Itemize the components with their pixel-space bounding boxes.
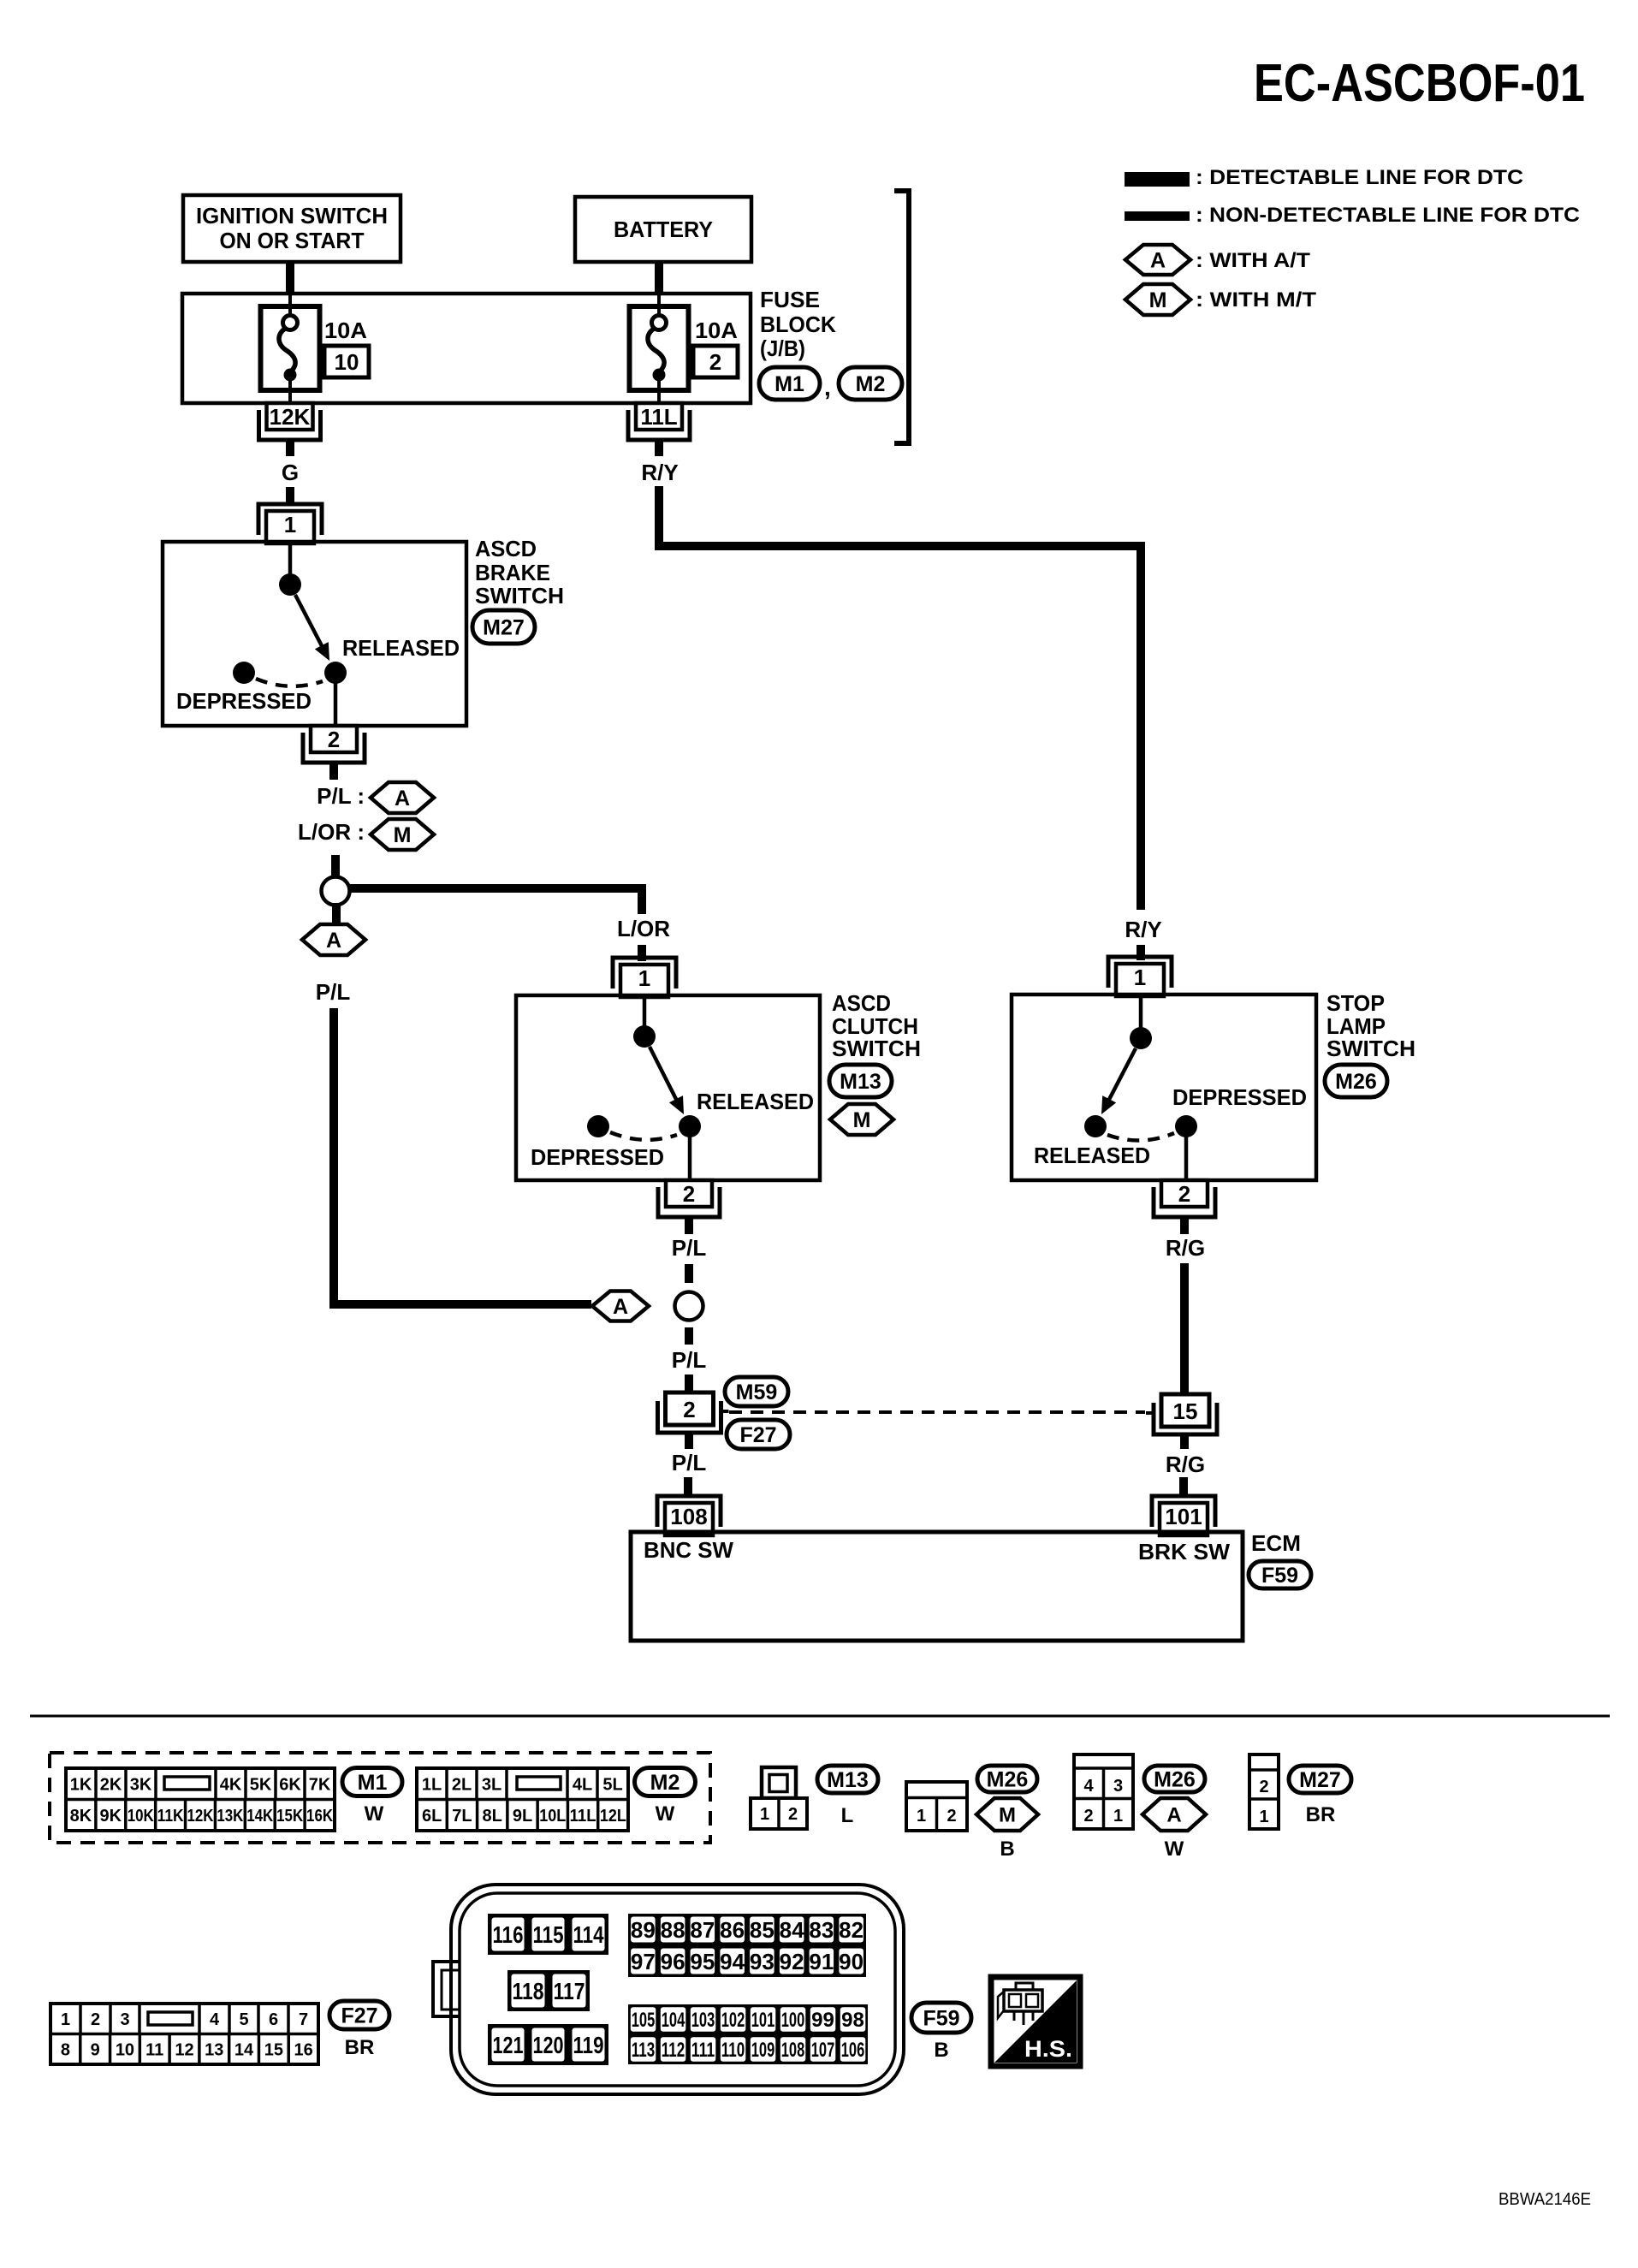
inline connector pin 15 (1161, 1394, 1209, 1427)
hexagon A (bottom M26) (1142, 1798, 1206, 1831)
svg-text:DEPRESSED: DEPRESSED (1172, 1084, 1307, 1110)
svg-text:15: 15 (1173, 1398, 1198, 1424)
svg-text:F59: F59 (1261, 1564, 1298, 1588)
svg-text:L/OR: L/OR (617, 916, 670, 941)
svg-text:102: 102 (721, 2009, 745, 2032)
svg-text:3: 3 (120, 2010, 129, 2029)
hexagon M (clutch switch with M/T) (830, 1104, 893, 1135)
svg-text:R/Y: R/Y (1125, 917, 1161, 942)
svg-text:2: 2 (709, 349, 721, 375)
connector grid M2 (fuse block 1L-12L) (417, 1768, 628, 1831)
svg-text:2: 2 (91, 2010, 100, 2029)
svg-text:3L: 3L (482, 1775, 501, 1794)
wire stub below stop pin 2 (1180, 1217, 1189, 1234)
svg-text:116: 116 (493, 1921, 524, 1948)
svg-text:85: 85 (750, 1917, 774, 1943)
stop lamp switch released contact (1084, 1115, 1107, 1137)
wire ignition switch to fuse block (286, 262, 294, 294)
wire stub below junction node (332, 903, 341, 925)
svg-text:2: 2 (788, 1805, 798, 1824)
second junction node (675, 1292, 703, 1321)
hexagon A (P/L wire) (371, 782, 434, 813)
brake switch released contact (324, 662, 347, 684)
ECM pins 89-82 97-90 (628, 1914, 866, 1977)
svg-text:88: 88 (661, 1917, 685, 1943)
svg-text:2: 2 (1178, 1181, 1190, 1207)
connector oval M59 (725, 1377, 788, 1406)
wire depressed contact to stop pin 2 (1184, 1136, 1189, 1180)
wire stub into ECM pin 101 (1179, 1477, 1188, 1496)
connector oval M13 (clutch switch) (829, 1065, 892, 1097)
svg-text:M2: M2 (856, 372, 886, 396)
connector view M26 four-pin (stop lamp switch A/T) (1074, 1754, 1133, 1829)
svg-text:82: 82 (839, 1917, 864, 1943)
battery box (575, 197, 751, 262)
svg-text:1L: 1L (422, 1775, 442, 1794)
svg-text:RELEASED: RELEASED (1034, 1143, 1150, 1168)
wire R/Y from fuse block to stop lamp switch (659, 486, 1141, 910)
connector view M26 two-pin (stop lamp switch M/T) (906, 1782, 967, 1831)
svg-text:6: 6 (269, 2010, 278, 2029)
svg-text:M59: M59 (736, 1380, 778, 1404)
svg-text:: DETECTABLE LINE FOR DTC: : DETECTABLE LINE FOR DTC (1196, 166, 1523, 189)
svg-text:1: 1 (917, 1807, 926, 1826)
wire stub into clutch switch pin 1 (638, 945, 646, 961)
svg-text:A: A (326, 929, 341, 953)
svg-text:: WITH M/T: : WITH M/T (1196, 288, 1316, 312)
connector pin 2 of ASCD clutch switch (666, 1180, 712, 1207)
connector oval F27 (727, 1420, 790, 1449)
fuse block bracket (894, 191, 909, 443)
svg-text:W: W (1165, 1838, 1184, 1861)
svg-text:15: 15 (264, 2040, 283, 2059)
svg-text:113: 113 (632, 2039, 656, 2062)
svg-text:121: 121 (493, 2032, 524, 2058)
ECM connector index notch (433, 1962, 460, 2016)
clutch switch common contact (633, 1025, 656, 1048)
stop lamp switch common contact (1130, 1027, 1152, 1049)
wire stub above junction node (331, 855, 340, 876)
svg-text:100: 100 (781, 2009, 805, 2032)
stop lamp switch box (1012, 994, 1316, 1180)
svg-text:15K: 15K (276, 1807, 303, 1826)
connector view M27 (brake switch) (1249, 1754, 1279, 1829)
wire G into ASCD brake switch pin 1 (286, 487, 294, 506)
svg-text:114: 114 (573, 1921, 604, 1948)
svg-text:101: 101 (751, 2009, 775, 2032)
svg-text:BBWA2146E: BBWA2146E (1499, 2190, 1591, 2209)
svg-text:M: M (999, 1804, 1016, 1827)
svg-text:L/OR :: L/OR : (298, 819, 365, 845)
connector pin 2 of stop lamp switch (1161, 1180, 1208, 1207)
svg-text:: NON-DETECTABLE LINE FOR DTC: : NON-DETECTABLE LINE FOR DTC (1196, 204, 1580, 227)
svg-text:89: 89 (631, 1917, 656, 1943)
svg-text:RELEASED: RELEASED (342, 635, 460, 661)
svg-text:108: 108 (670, 1504, 707, 1529)
svg-text:M26: M26 (1154, 1768, 1196, 1792)
svg-text:5: 5 (239, 2010, 248, 2029)
svg-text:F59: F59 (923, 2007, 959, 2031)
svg-text:9K: 9K (100, 1807, 122, 1826)
svg-text:ASCD: ASCD (475, 536, 537, 561)
svg-text:105: 105 (632, 2009, 656, 2032)
stop lamp switch depressed contact (1175, 1115, 1197, 1137)
connector pin 1 of stop lamp switch (1108, 957, 1172, 988)
svg-text:BLOCK: BLOCK (760, 312, 836, 337)
svg-text:119: 119 (573, 2032, 604, 2058)
svg-text:IGNITION SWITCH: IGNITION SWITCH (196, 203, 388, 229)
svg-text:1: 1 (61, 2010, 70, 2029)
svg-text:94: 94 (720, 1949, 745, 1974)
svg-text:P/L: P/L (316, 979, 351, 1005)
connector oval M26 (bottom, M/T) (977, 1766, 1037, 1792)
svg-text:A: A (1150, 249, 1166, 273)
svg-text:(J/B): (J/B) (760, 335, 805, 361)
wire stub below M59/F27 junction (685, 1433, 693, 1449)
svg-text:107: 107 (811, 2039, 835, 2062)
svg-text:P/L :: P/L : (317, 783, 365, 809)
svg-text:5K: 5K (250, 1775, 272, 1794)
svg-text:W: W (365, 1802, 384, 1826)
svg-text:M27: M27 (483, 616, 525, 640)
svg-text:4: 4 (210, 2010, 220, 2029)
svg-text:BRAKE: BRAKE (475, 560, 550, 585)
legend hexagon M (1125, 284, 1190, 315)
svg-text:R/G: R/G (1166, 1452, 1205, 1477)
connector pin 1 of ASCD brake switch (258, 504, 322, 535)
ECM pins 121 120 119 (488, 2024, 608, 2065)
svg-text:6K: 6K (279, 1775, 301, 1794)
wire stub below junction 15 (1180, 1433, 1189, 1449)
svg-text:M26: M26 (987, 1768, 1029, 1792)
svg-text:M: M (1149, 288, 1167, 312)
svg-text:1K: 1K (70, 1775, 92, 1794)
svg-text:2: 2 (683, 1181, 695, 1207)
wire released contact to clutch pin 2 (688, 1136, 692, 1180)
fuse number box 2 (693, 346, 738, 377)
svg-text:13K: 13K (217, 1807, 243, 1826)
connector oval F27 (bottom) (329, 2001, 389, 2029)
wire battery to fuse block (655, 262, 663, 294)
svg-text:A: A (1166, 1804, 1181, 1827)
svg-text:104: 104 (662, 2009, 685, 2032)
svg-text:4K: 4K (220, 1775, 242, 1794)
svg-text:111: 111 (691, 2039, 715, 2062)
svg-text:BNC SW: BNC SW (644, 1537, 733, 1563)
svg-text:10A: 10A (324, 318, 367, 343)
svg-text:117: 117 (554, 1978, 585, 2004)
svg-text:109: 109 (751, 2039, 775, 2062)
svg-text:8K: 8K (70, 1807, 92, 1826)
stop lamp switch arm with arrow (1107, 1048, 1136, 1104)
connector oval M1 (bottom) (342, 1768, 402, 1796)
svg-text:5L: 5L (602, 1775, 622, 1794)
svg-text:EC-ASCBOF-01: EC-ASCBOF-01 (1254, 54, 1585, 113)
svg-text:110: 110 (721, 2039, 745, 2062)
legend detectable line sample (1125, 172, 1190, 187)
connector pin 108 of ECM (657, 1496, 721, 1527)
svg-text:108: 108 (781, 2039, 805, 2062)
svg-text:M13: M13 (827, 1768, 869, 1792)
svg-text:M: M (394, 823, 412, 847)
wire stub below clutch pin 2 (685, 1217, 693, 1234)
svg-text:1: 1 (760, 1805, 769, 1824)
svg-text:F27: F27 (739, 1423, 776, 1447)
svg-text:2: 2 (1259, 1778, 1268, 1796)
wire stub below 12K (286, 440, 294, 456)
svg-text:SWITCH: SWITCH (832, 1036, 921, 1061)
svg-text:M2: M2 (650, 1771, 680, 1795)
svg-text:BATTERY: BATTERY (614, 217, 713, 242)
hexagon M (L/OR wire) (371, 819, 434, 850)
svg-text:2: 2 (1083, 1807, 1093, 1826)
svg-text:10L: 10L (539, 1807, 566, 1826)
svg-text:H.S.: H.S. (1024, 2036, 1072, 2062)
wire branch to ASCD clutch switch (350, 888, 642, 914)
svg-text:118: 118 (513, 1978, 544, 2004)
connector oval F59 (bottom) (911, 2003, 971, 2033)
svg-text:86: 86 (720, 1917, 745, 1943)
svg-text:P/L: P/L (672, 1347, 707, 1373)
svg-text:M1: M1 (358, 1771, 388, 1795)
svg-text:87: 87 (690, 1917, 715, 1943)
dashed harness link between junctions (729, 1410, 1145, 1414)
svg-text:11L: 11L (570, 1807, 596, 1826)
dashed wire P/L above second junction (685, 1264, 693, 1283)
ASCD brake switch box (163, 542, 466, 726)
svg-text:: WITH A/T: : WITH A/T (1196, 249, 1310, 272)
svg-text:ECM: ECM (1251, 1530, 1301, 1556)
svg-text:92: 92 (780, 1949, 804, 1974)
svg-text:14: 14 (234, 2040, 254, 2059)
connector pin 1 of ASCD clutch switch (613, 958, 676, 989)
clutch switch dashed travel arc (610, 1132, 677, 1140)
svg-text:B: B (934, 2039, 948, 2062)
ECM box (631, 1532, 1243, 1641)
wire inside brake switch (288, 543, 293, 575)
fuse 10A no.10 (261, 306, 320, 390)
ECM pins 105-98 113-106 (628, 2004, 868, 2064)
svg-text:7: 7 (299, 2010, 308, 2029)
svg-text:7L: 7L (452, 1807, 472, 1826)
ASCD clutch switch box (516, 995, 820, 1180)
svg-text:16: 16 (294, 2040, 312, 2059)
svg-text:A: A (613, 1295, 628, 1319)
hexagon M (bottom M26) (976, 1798, 1038, 1831)
connector pin 101 of ECM (1152, 1496, 1215, 1527)
junction node (brake switch output) (322, 877, 350, 905)
wire P/L from A/T branch down to second junction (334, 1008, 591, 1304)
connector grid F27 (1-16) (50, 2004, 318, 2064)
svg-text:10K: 10K (128, 1807, 154, 1826)
svg-text:99: 99 (811, 2009, 834, 2032)
svg-text:9: 9 (91, 2040, 100, 2059)
connector oval F59 (ECM) (1249, 1561, 1311, 1588)
svg-text:83: 83 (809, 1917, 834, 1943)
svg-text:A: A (395, 787, 410, 810)
svg-text:103: 103 (691, 2009, 715, 2032)
svg-text:96: 96 (661, 1949, 685, 1974)
svg-text:98: 98 (841, 2009, 864, 2032)
svg-text:G: G (282, 460, 299, 485)
svg-text:1: 1 (284, 512, 296, 537)
svg-text:F27: F27 (341, 2004, 377, 2028)
svg-text:97: 97 (631, 1949, 656, 1974)
svg-text:SWITCH: SWITCH (1326, 1036, 1415, 1061)
svg-text:10: 10 (335, 349, 359, 375)
svg-text:8: 8 (61, 2040, 70, 2059)
connector oval M1 (759, 367, 820, 400)
svg-text:13: 13 (205, 2040, 223, 2059)
svg-text:16K: 16K (306, 1807, 333, 1826)
svg-text:120: 120 (533, 2032, 564, 2058)
svg-text:2L: 2L (452, 1775, 472, 1794)
svg-text:DEPRESSED: DEPRESSED (176, 688, 312, 714)
svg-text:10: 10 (116, 2040, 134, 2059)
connector grid M1 (fuse block 1K-16K) (66, 1768, 335, 1831)
svg-text:L: L (841, 1804, 854, 1827)
svg-text:P/L: P/L (672, 1235, 707, 1261)
H.S. data link logo (991, 1977, 1080, 2066)
legend non-detectable line sample (1125, 211, 1190, 221)
connector oval M26 (bottom, A/T) (1144, 1766, 1205, 1792)
svg-text:11: 11 (145, 2040, 163, 2059)
ECM connector shell (F59) (451, 1885, 904, 2094)
svg-text:12L: 12L (600, 1807, 626, 1826)
svg-text:2: 2 (947, 1807, 956, 1826)
svg-text:7K: 7K (309, 1775, 331, 1794)
svg-text:R/G: R/G (1166, 1235, 1205, 1261)
svg-text:4L: 4L (573, 1775, 592, 1794)
svg-text:1: 1 (1113, 1807, 1123, 1826)
svg-text:10A: 10A (695, 318, 738, 343)
wire stub into M59/F27 junction (685, 1374, 693, 1394)
svg-text:11L: 11L (640, 404, 677, 430)
svg-text:RELEASED: RELEASED (697, 1089, 814, 1114)
connector oval M2 (839, 367, 902, 400)
dashed wire P/L below second junction (685, 1327, 693, 1345)
svg-text:M: M (853, 1108, 871, 1132)
connector pin 11L (636, 403, 682, 430)
connector oval M27 (bottom) (1289, 1766, 1351, 1793)
svg-text:P/L: P/L (672, 1450, 707, 1475)
svg-text:1: 1 (638, 965, 650, 991)
svg-text:11K: 11K (157, 1807, 184, 1826)
svg-text:SWITCH: SWITCH (475, 583, 564, 609)
svg-text:115: 115 (533, 1921, 564, 1948)
connector pin 2 of ASCD brake switch (311, 726, 357, 752)
svg-text:95: 95 (690, 1949, 715, 1974)
svg-text:84: 84 (780, 1917, 804, 1943)
svg-text:12: 12 (175, 2040, 193, 2059)
svg-text:112: 112 (662, 2039, 685, 2062)
wire released contact to pin 2 (334, 682, 338, 726)
svg-text:3K: 3K (130, 1775, 152, 1794)
svg-text:2: 2 (328, 727, 340, 752)
wire inside stop lamp switch (1139, 996, 1143, 1029)
svg-text:93: 93 (750, 1949, 774, 1974)
svg-text:4: 4 (1083, 1777, 1094, 1796)
svg-text:,: , (824, 374, 831, 401)
svg-text:106: 106 (841, 2039, 865, 2062)
wire stub below brake switch pin 2 (329, 763, 338, 780)
connector view M13 (clutch switch) (762, 1767, 796, 1798)
fuse number box 10 (324, 346, 369, 377)
wire inside clutch switch (643, 997, 647, 1027)
svg-text:M1: M1 (774, 372, 804, 396)
svg-text:R/Y: R/Y (641, 460, 678, 485)
svg-text:12K: 12K (270, 404, 311, 430)
separator line (30, 1715, 1610, 1718)
wire R/Y stub into stop lamp switch pin 1 (1137, 945, 1145, 960)
svg-text:3: 3 (1113, 1777, 1123, 1796)
clutch switch depressed contact (587, 1115, 609, 1137)
svg-text:BR: BR (1306, 1803, 1336, 1826)
svg-text:9L: 9L (513, 1807, 532, 1826)
svg-text:ASCD: ASCD (832, 990, 891, 1016)
svg-text:M13: M13 (840, 1070, 881, 1094)
wire stub below 11L (655, 440, 663, 456)
svg-text:ON OR START: ON OR START (220, 228, 365, 253)
svg-text:2K: 2K (100, 1775, 122, 1794)
hexagon A (before second junction) (592, 1291, 649, 1321)
connector oval M2 (bottom) (635, 1768, 696, 1796)
svg-text:91: 91 (809, 1949, 834, 1974)
brake switch common contact (279, 573, 301, 596)
svg-text:BR: BR (345, 2036, 375, 2059)
svg-text:1: 1 (1259, 1808, 1268, 1826)
svg-text:B: B (1000, 1838, 1014, 1861)
connector oval M13 (bottom) (817, 1766, 878, 1793)
brake switch dashed travel arc (256, 679, 323, 686)
svg-text:90: 90 (839, 1949, 864, 1974)
ECM pins 118 117 (507, 1970, 590, 2011)
svg-text:14K: 14K (246, 1807, 273, 1826)
hexagon A (A/T branch) (302, 924, 365, 955)
svg-text:DEPRESSED: DEPRESSED (531, 1144, 664, 1170)
svg-text:101: 101 (1165, 1504, 1202, 1529)
ignition switch box (183, 195, 401, 262)
fuse block (J/B) box (182, 294, 751, 403)
dashed group box (fuse block connectors) (50, 1753, 710, 1843)
connector pin 12K (267, 403, 313, 430)
inline connector pin 2 (M59/F27) (666, 1392, 714, 1425)
svg-text:2: 2 (683, 1397, 695, 1422)
connector oval M26 (stop lamp switch) (1325, 1065, 1387, 1097)
clutch switch released contact (679, 1115, 701, 1137)
legend hexagon A (1125, 245, 1190, 275)
svg-text:M27: M27 (1299, 1768, 1341, 1792)
svg-text:M26: M26 (1335, 1070, 1377, 1094)
wire stub into ECM pin 108 (684, 1477, 692, 1496)
svg-text:STOP: STOP (1326, 990, 1385, 1016)
svg-text:8L: 8L (483, 1807, 502, 1826)
fuse 10A no.2 (630, 306, 689, 390)
svg-text:BRK SW: BRK SW (1138, 1539, 1230, 1564)
brake switch arm with arrow (295, 595, 324, 650)
connector oval M27 (brake switch) (472, 610, 535, 644)
svg-text:W: W (656, 1802, 675, 1826)
svg-text:1: 1 (1134, 965, 1146, 990)
svg-text:12K: 12K (187, 1807, 214, 1826)
svg-text:FUSE: FUSE (760, 287, 820, 312)
stop lamp switch dashed travel arc (1107, 1133, 1174, 1141)
svg-text:6L: 6L (422, 1807, 442, 1826)
brake switch depressed contact (233, 662, 255, 684)
clutch switch arm with arrow (650, 1047, 679, 1104)
ECM pins 116 115 114 (488, 1914, 608, 1955)
wire R/G down to junction 15 (1180, 1263, 1189, 1396)
